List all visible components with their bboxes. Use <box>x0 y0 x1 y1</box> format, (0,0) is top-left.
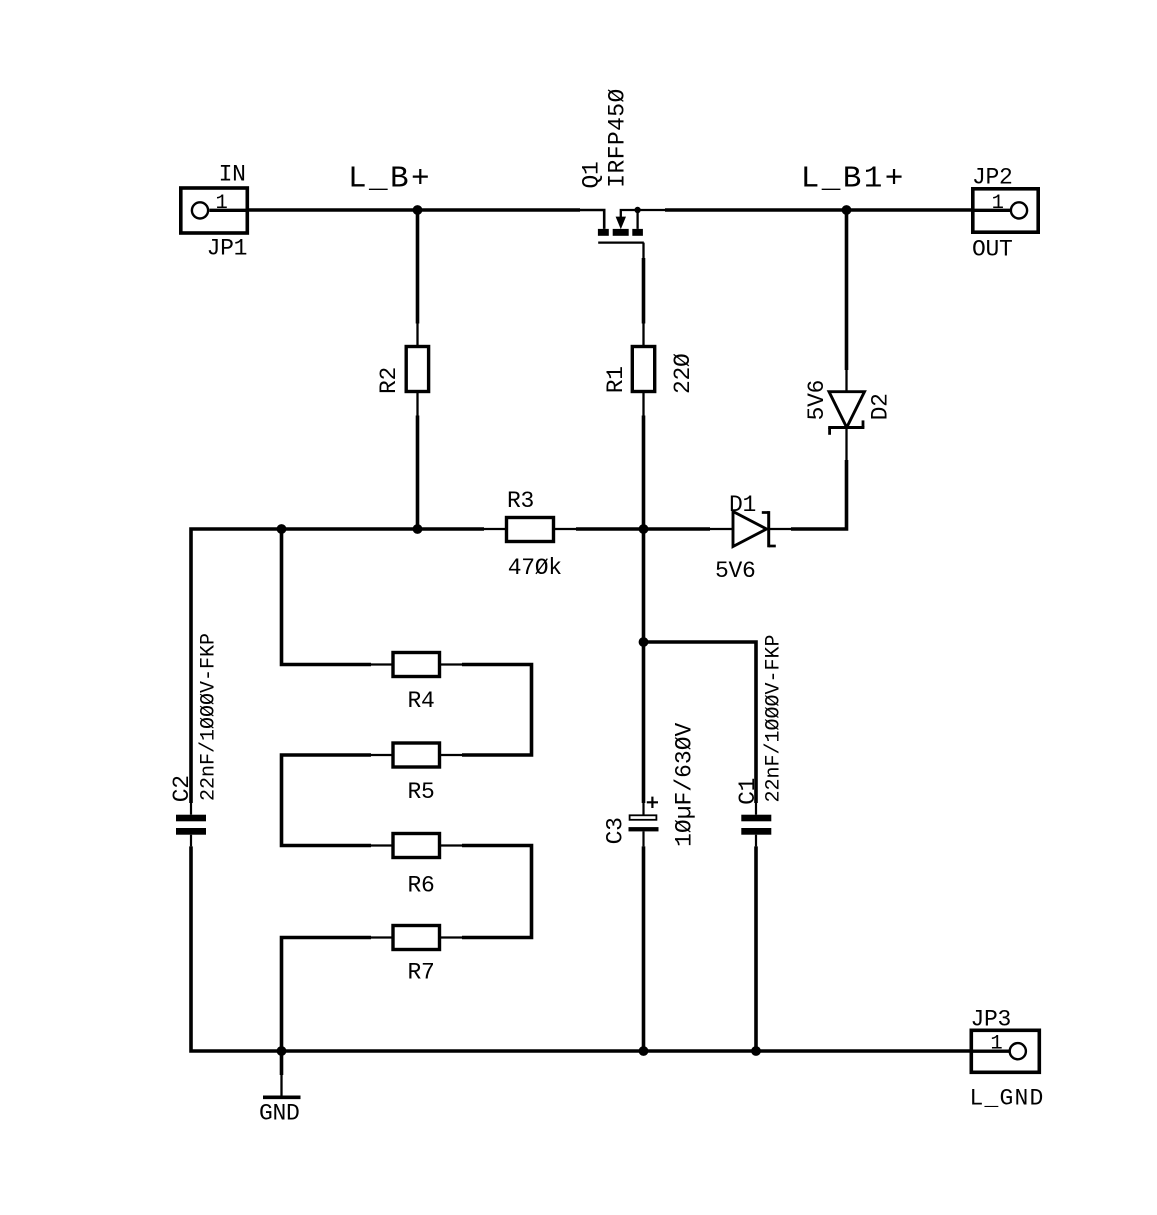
svg-text:D1: D1 <box>729 492 756 518</box>
svg-text:1ØµF/63ØV: 1ØµF/63ØV <box>672 722 698 846</box>
svg-text:L_B+: L_B+ <box>348 162 432 197</box>
svg-text:L_B1+: L_B1+ <box>801 162 906 197</box>
svg-text:C1: C1 <box>735 778 761 805</box>
svg-text:Q1: Q1 <box>579 161 605 188</box>
svg-text:JP3: JP3 <box>971 1007 1012 1033</box>
svg-text:GND: GND <box>259 1101 300 1127</box>
svg-text:1: 1 <box>992 192 1004 215</box>
svg-text:IN: IN <box>219 162 246 188</box>
svg-text:R1: R1 <box>603 366 629 393</box>
svg-text:R6: R6 <box>408 873 435 899</box>
svg-text:JP1: JP1 <box>207 236 248 262</box>
svg-text:22nF/1ØØØV-FKP: 22nF/1ØØØV-FKP <box>198 633 221 801</box>
svg-text:L_GND: L_GND <box>970 1086 1045 1112</box>
svg-text:C2: C2 <box>169 775 195 802</box>
svg-text:1: 1 <box>990 1033 1002 1056</box>
svg-text:R5: R5 <box>408 779 435 805</box>
svg-text:R4: R4 <box>408 688 435 714</box>
svg-text:5V6: 5V6 <box>715 558 756 584</box>
svg-text:5V6: 5V6 <box>804 380 830 421</box>
svg-text:R3: R3 <box>507 488 534 514</box>
svg-text:C3: C3 <box>603 817 629 844</box>
svg-text:1: 1 <box>216 192 228 215</box>
svg-text:22nF/1ØØØV-FKP: 22nF/1ØØØV-FKP <box>763 634 786 802</box>
svg-text:JP2: JP2 <box>972 165 1013 191</box>
svg-text:D2: D2 <box>868 393 894 420</box>
svg-text:47Øk: 47Øk <box>508 555 562 581</box>
svg-text:22Ø: 22Ø <box>670 353 696 394</box>
svg-text:OUT: OUT <box>972 237 1013 263</box>
svg-text:IRFP45Ø: IRFP45Ø <box>605 88 631 187</box>
svg-text:R2: R2 <box>376 367 402 394</box>
svg-text:R7: R7 <box>408 960 435 986</box>
